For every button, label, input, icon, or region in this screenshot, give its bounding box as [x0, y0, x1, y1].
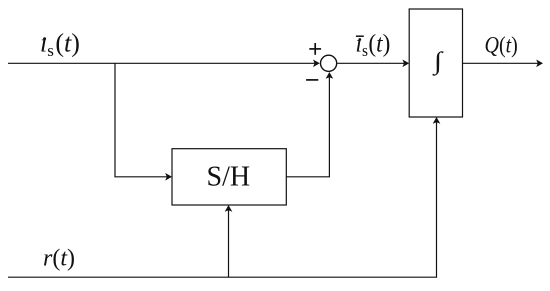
wire: S/H output right then up to summing junction minus input — [286, 77, 329, 177]
wire: bottom r(t) line with corner up to integrator — [8, 122, 437, 278]
svg-text:Q(t): Q(t) — [485, 32, 518, 58]
wire: integrator output Q(t) — [463, 62, 539, 64]
svg-text:ıs(t): ıs(t) — [40, 29, 80, 61]
svg-text:r(t): r(t) — [43, 246, 75, 272]
arrowhead up into summing junction (bottom) — [326, 72, 334, 79]
wire: branch from top line down at x=115 — [115, 63, 168, 177]
block: integrator U1 rectangle — [409, 9, 462, 117]
node: summing junction circle — [321, 55, 337, 71]
minus sign at summing junction — [306, 79, 318, 81]
svg-text:ıs(t): ıs(t) — [356, 30, 391, 60]
block: S/H rectangle — [172, 149, 286, 205]
dot of bar-i — [358, 38, 361, 41]
overbar of bar-i — [356, 35, 364, 37]
arrowhead into integrator (left) — [402, 60, 409, 68]
dot of i in i_s(t) — [43, 37, 46, 40]
svg-text:S/H: S/H — [207, 162, 251, 193]
arrowhead into S/H (left) — [165, 173, 172, 181]
plus sign at summing junction — [309, 43, 321, 55]
arrowhead into summing junction (left) — [313, 60, 320, 68]
wire: summing junction to integrator — [337, 62, 404, 64]
arrowhead up into S/H (bottom) — [225, 205, 233, 212]
wire: top signal line i_s(t) into summing junction — [8, 62, 316, 64]
arrowhead output (right end) — [536, 60, 543, 68]
svg-text:∫: ∫ — [432, 47, 445, 76]
wire: branch from bottom line up into S/H — [228, 210, 230, 278]
arrowhead up into integrator (bottom) — [433, 117, 441, 124]
